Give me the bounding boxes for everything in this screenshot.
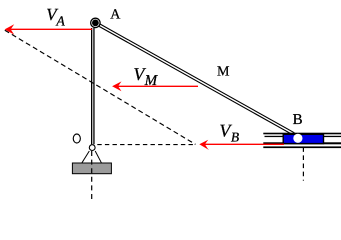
ground block at O [72,163,111,174]
pin hole at B (white circle) [293,134,302,143]
pin O (hinge circle) [89,145,95,151]
guide rail upper outer line [263,133,341,135]
svg-text:A: A [55,14,65,29]
velocity vector VM (red arrow) [118,85,199,87]
slider B (blue piston) [283,134,323,143]
guide rail lower outer line [263,146,341,148]
dashed vertical centerline below B [302,147,304,180]
dashed vertical centerline below O [91,151,93,201]
support triangle legs at O [82,151,90,163]
guide rail upper inner line [265,136,341,137]
velocity vector VB (red arrow) [205,143,284,145]
svg-text:M: M [217,65,230,80]
svg-text:M: M [144,73,159,89]
dashed horizontal line from O to apex [97,144,195,146]
label O [73,134,80,143]
rod AB (double line) [97,24,294,134]
dashed construction line from VA tip to velocity-triangle apex [5,30,196,144]
link OA (vertical double line) [91,28,93,144]
guide rail lower inner line [263,142,341,144]
svg-text:B: B [293,112,303,128]
svg-text:B: B [231,130,239,145]
svg-text:A: A [110,8,121,23]
pin A (hinge circle with dot) [91,18,100,27]
velocity vector VA (red arrow) [10,28,92,30]
